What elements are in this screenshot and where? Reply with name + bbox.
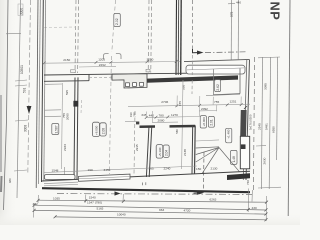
svg-text:5x176,6/300: 5x176,6/300 xyxy=(249,114,253,130)
svg-text:1270: 1270 xyxy=(171,113,178,117)
svg-text:595: 595 xyxy=(65,90,69,95)
svg-text:595: 595 xyxy=(182,85,186,90)
svg-text:5481: 5481 xyxy=(265,123,269,130)
svg-text:575: 575 xyxy=(230,11,234,17)
svg-text:3008: 3008 xyxy=(24,125,28,132)
svg-text:3385: 3385 xyxy=(264,83,268,90)
svg-text:4720: 4720 xyxy=(184,209,191,213)
svg-text:155: 155 xyxy=(178,101,182,106)
svg-text:755: 755 xyxy=(133,112,137,117)
svg-text:2630: 2630 xyxy=(263,157,267,164)
svg-text:NP: NP xyxy=(268,2,283,21)
svg-text:6550: 6550 xyxy=(272,126,276,133)
svg-text:2.02: 2.02 xyxy=(115,18,119,25)
svg-text:1548: 1548 xyxy=(52,169,59,173)
svg-text:+1.480: +1.480 xyxy=(227,129,231,139)
svg-text:2545: 2545 xyxy=(258,123,262,130)
svg-text:2080: 2080 xyxy=(158,118,165,122)
svg-text:430: 430 xyxy=(252,206,257,210)
svg-text:680: 680 xyxy=(8,178,12,183)
svg-text:963: 963 xyxy=(159,208,164,212)
svg-text:10040: 10040 xyxy=(117,213,126,217)
svg-text:2.01: 2.01 xyxy=(210,119,214,125)
svg-text:780: 780 xyxy=(159,113,164,117)
svg-text:190: 190 xyxy=(88,168,93,172)
svg-text:2.62: 2.62 xyxy=(216,84,220,91)
svg-text:1547 (780): 1547 (780) xyxy=(87,200,102,204)
svg-text:740: 740 xyxy=(246,180,250,185)
svg-text:1.48: 1.48 xyxy=(232,156,236,162)
svg-text:3250: 3250 xyxy=(147,57,154,61)
svg-text:+5.190: +5.190 xyxy=(158,147,162,157)
svg-text:165: 165 xyxy=(149,167,154,171)
svg-text:440: 440 xyxy=(236,1,241,5)
svg-text:1035: 1035 xyxy=(53,196,60,200)
svg-text:2092: 2092 xyxy=(201,107,208,111)
svg-text:+8.000: +8.000 xyxy=(202,117,206,127)
svg-text:10501: 10501 xyxy=(20,65,24,74)
svg-text:5165: 5165 xyxy=(97,206,104,210)
svg-text:2706: 2706 xyxy=(161,100,168,104)
svg-text:+8.000: +8.000 xyxy=(94,125,98,135)
svg-text:2080: 2080 xyxy=(66,113,70,120)
svg-text:2943: 2943 xyxy=(63,144,67,151)
svg-text:2292: 2292 xyxy=(99,63,106,67)
svg-text:6263: 6263 xyxy=(210,197,217,201)
svg-text:2240: 2240 xyxy=(164,166,171,170)
svg-text:2.08: 2.08 xyxy=(101,128,105,134)
svg-text:1.587: 1.587 xyxy=(55,125,59,133)
svg-text:1205: 1205 xyxy=(98,58,105,62)
svg-text:1540: 1540 xyxy=(89,196,96,200)
svg-text:591: 591 xyxy=(23,87,27,93)
svg-text:2.04: 2.04 xyxy=(164,150,168,156)
svg-text:2150: 2150 xyxy=(63,58,70,62)
svg-text:150: 150 xyxy=(196,167,201,171)
svg-text:2130: 2130 xyxy=(211,167,218,171)
svg-text:2138: 2138 xyxy=(183,149,187,156)
svg-text:1251: 1251 xyxy=(230,100,237,104)
svg-text:440: 440 xyxy=(149,114,154,118)
svg-text:580: 580 xyxy=(175,129,179,134)
svg-text:2935: 2935 xyxy=(135,144,139,151)
svg-text:755: 755 xyxy=(214,100,219,104)
